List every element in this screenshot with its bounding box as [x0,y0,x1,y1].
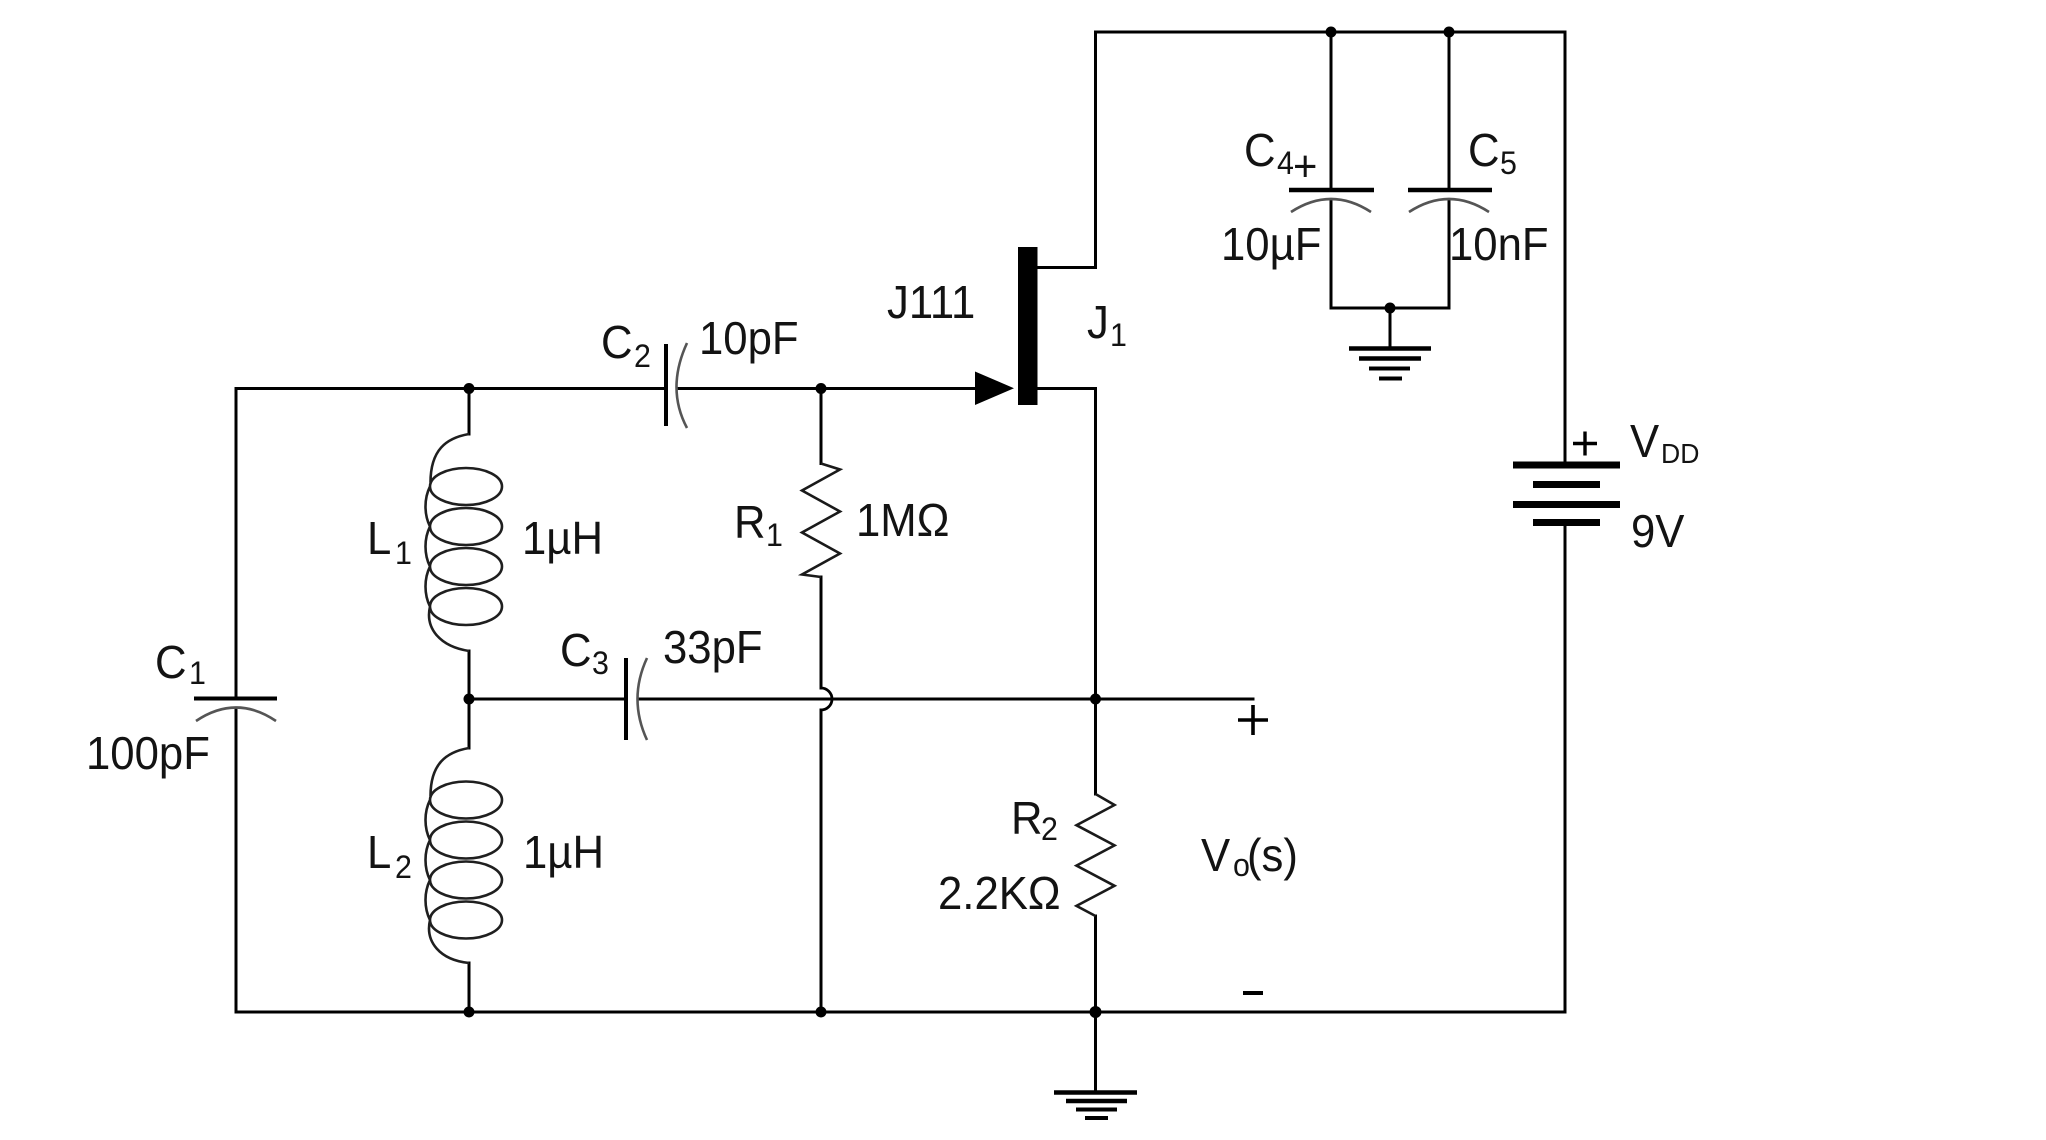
svg-text:C: C [1244,124,1276,176]
svg-text:2.2KΩ: 2.2KΩ [938,867,1061,919]
svg-text:+: + [1293,142,1317,191]
svg-text:1µH: 1µH [522,512,603,564]
svg-text:V: V [1630,415,1659,467]
svg-text:R: R [1011,792,1043,844]
svg-text:10pF: 10pF [699,312,799,364]
svg-text:1: 1 [766,517,783,553]
svg-text:R: R [734,496,766,548]
svg-text:9V: 9V [1631,505,1685,557]
svg-text:C: C [560,624,592,676]
svg-text:L: L [367,826,391,878]
svg-text:2: 2 [634,338,651,374]
svg-text:10nF: 10nF [1449,218,1549,270]
svg-text:100pF: 100pF [86,727,210,779]
svg-text:1: 1 [189,655,206,691]
svg-text:(s): (s) [1247,829,1298,881]
svg-text:DD: DD [1661,437,1699,469]
svg-text:1MΩ: 1MΩ [856,494,949,546]
svg-text:1µH: 1µH [523,826,604,878]
svg-text:J: J [1087,296,1109,348]
svg-text:C: C [601,316,633,368]
svg-text:5: 5 [1500,145,1517,181]
svg-text:V: V [1201,829,1230,881]
svg-text:L: L [367,512,391,564]
svg-text:C: C [1468,124,1500,176]
svg-text:C: C [155,636,187,688]
svg-text:3: 3 [592,645,609,681]
svg-text:10µF: 10µF [1221,218,1321,270]
svg-text:1: 1 [1110,317,1127,353]
svg-text:33pF: 33pF [663,621,763,673]
svg-text:J111: J111 [887,276,975,328]
svg-text:4: 4 [1277,145,1294,181]
svg-text:2: 2 [1041,811,1058,847]
svg-text:1: 1 [395,535,412,571]
svg-text:2: 2 [395,849,412,885]
